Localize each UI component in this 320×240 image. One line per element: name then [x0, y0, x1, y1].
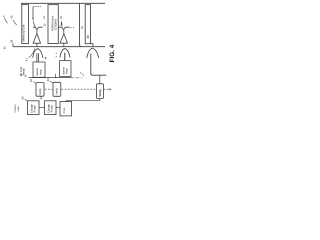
control box B2: [45, 101, 57, 115]
leader hook far left: [4, 18, 7, 24]
connector B2-F: [56, 107, 60, 109]
gate line col1: [32, 7, 34, 18]
wire left drop: [21, 3, 23, 4]
svg-text:Memory Cell: Memory Cell: [22, 24, 26, 41]
svg-text:32: 32: [43, 23, 46, 26]
wire from register to state box: [66, 99, 100, 102]
svg-text:Logic: Logic: [17, 105, 20, 112]
bottom bus under sense amps: [29, 77, 72, 79]
svg-text:Verify: Verify: [98, 89, 102, 97]
svg-text:Pump: Pump: [51, 105, 54, 113]
bitline col3: [80, 3, 82, 46]
node top bus: [21, 2, 105, 4]
stub into register box: [99, 75, 101, 84]
svg-text:Verify: Verify: [56, 87, 59, 94]
memory column box 38: [85, 5, 90, 44]
connector B1-B2: [39, 107, 45, 109]
wordline horizontal: [13, 46, 105, 48]
svg-text:44: 44: [44, 56, 47, 59]
sense amp box 2: [60, 61, 72, 77]
amp triangle col2: [60, 34, 68, 44]
svg-text:Read: Read: [22, 68, 26, 75]
junction tick on bottom bus: [55, 74, 57, 78]
register box right: [97, 84, 104, 99]
amp triangle col1: [33, 34, 41, 44]
svg-text:Amp: Amp: [39, 69, 42, 75]
svg-text:Pump: Pump: [34, 105, 37, 113]
svg-text:Verify: Verify: [39, 88, 42, 95]
svg-text:33: 33: [60, 16, 63, 19]
chevron arrow 3: [87, 48, 99, 58]
dots between chevrons: [56, 53, 57, 54]
svg-text:20: 20: [10, 15, 13, 18]
svg-text:Column: Column: [54, 19, 58, 30]
gate arrow col2: [61, 21, 63, 23]
stem below triangle col2: [63, 43, 65, 46]
stem into triangle col2: [63, 30, 65, 34]
stem chevron2: [64, 53, 66, 61]
svg-text:40: 40: [3, 46, 6, 49]
pump box 2: [53, 82, 61, 96]
dots before col3 drop: [80, 72, 81, 73]
stem below triangle col1: [36, 43, 38, 46]
svg-text:42: 42: [40, 96, 43, 99]
stem chevron3 long drop: [91, 54, 107, 75]
svg-text:31: 31: [43, 16, 46, 19]
stub at wordline left: [12, 43, 14, 47]
sense amp box 1: [33, 62, 45, 77]
memory column box 32: [48, 5, 58, 44]
svg-text:FIG. 4: FIG. 4: [109, 44, 116, 62]
dashed control line: [45, 88, 53, 90]
svg-text:36: 36: [81, 26, 84, 29]
pump box 1: [36, 83, 44, 97]
wire from box3: [91, 44, 94, 47]
svg-text:41: 41: [25, 58, 29, 62]
state machine box: [60, 102, 72, 116]
stem chevron1: [36, 53, 38, 62]
svg-text:State: State: [63, 107, 66, 114]
dash-dot continuation: [71, 77, 82, 79]
svg-text:38: 38: [86, 35, 90, 39]
wordline dashes col1: [33, 6, 41, 8]
stem into triangle col1: [36, 30, 38, 34]
transistor wire col2: [58, 27, 69, 30]
svg-text:36: 36: [11, 39, 14, 42]
chevron arrow 2: [60, 49, 70, 58]
svg-text:44: 44: [47, 78, 50, 81]
svg-text:Amp: Amp: [66, 68, 69, 74]
chevron arrow 1: [33, 49, 43, 58]
control box B1: [28, 101, 40, 115]
transistor wire col1: [33, 27, 43, 30]
leader hook label 20: [13, 20, 17, 25]
svg-text:42: 42: [30, 79, 33, 82]
memory column box 30: [22, 5, 29, 44]
ellipsis dots right of wire2: [71, 27, 72, 28]
svg-text:40: 40: [22, 96, 25, 99]
